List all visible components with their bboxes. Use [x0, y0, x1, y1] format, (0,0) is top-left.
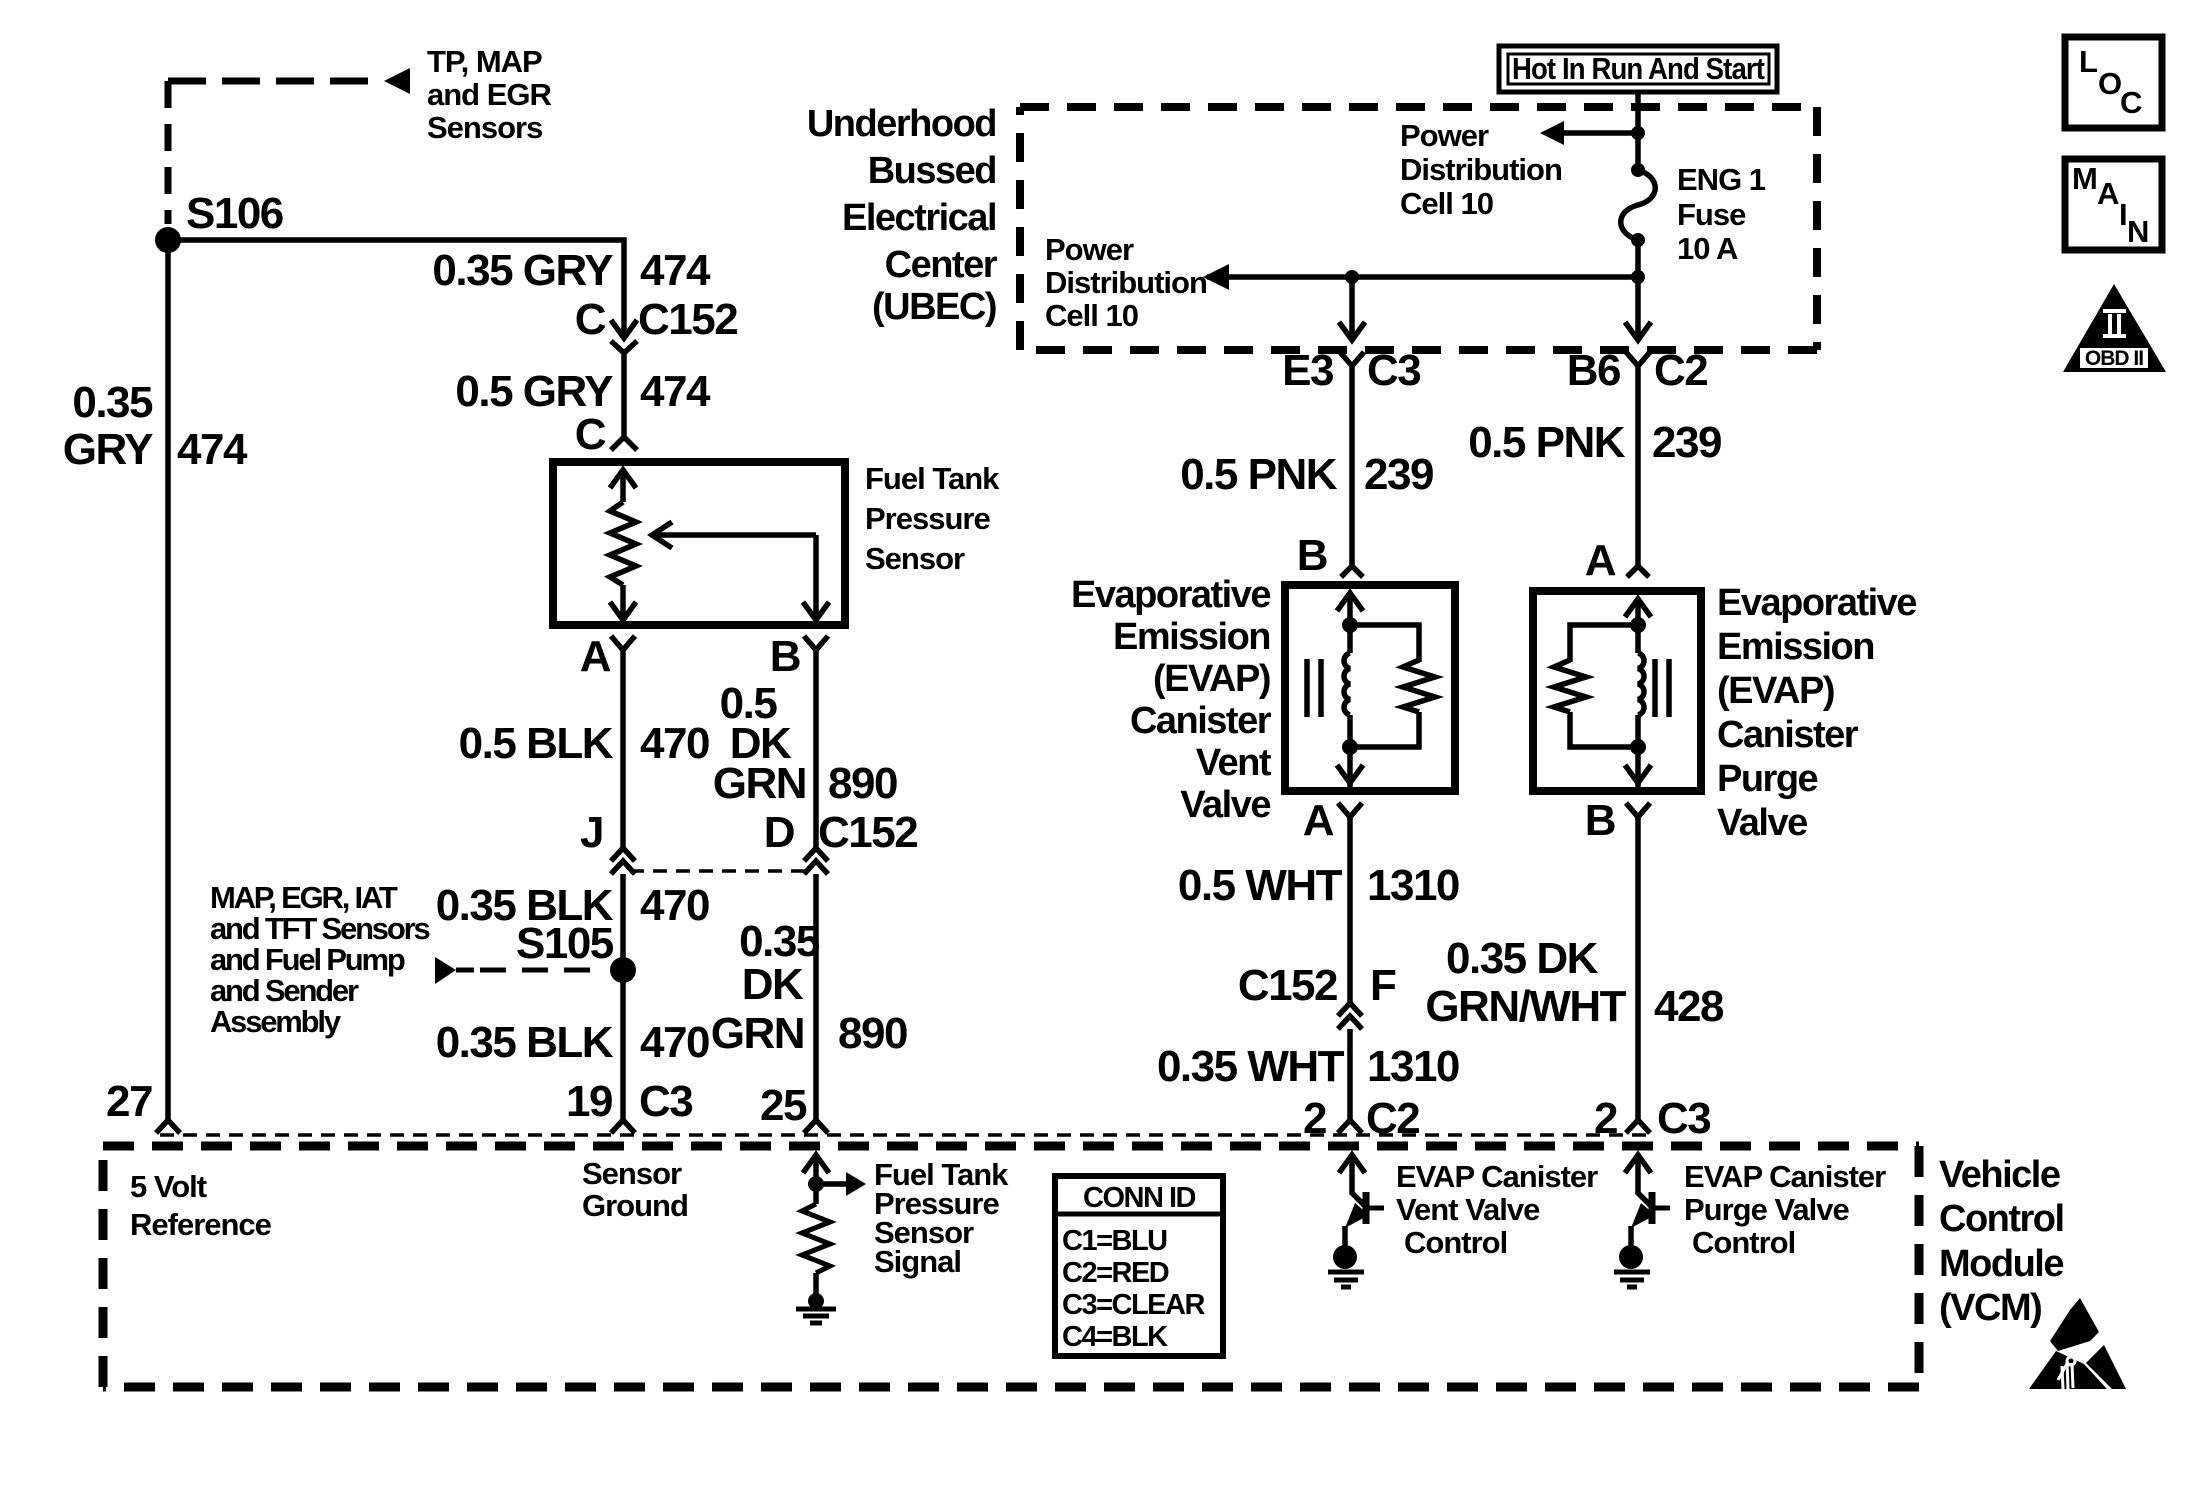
svg-text:0.35: 0.35 [72, 378, 153, 427]
svg-text:MAP, EGR, IAT: MAP, EGR, IAT [210, 880, 398, 915]
svg-text:C3: C3 [639, 1077, 692, 1126]
svg-text:Valve: Valve [1717, 802, 1807, 844]
svg-text:0.35 BLK: 0.35 BLK [436, 1018, 614, 1067]
svg-text:Distribution: Distribution [1400, 152, 1562, 187]
svg-text:B: B [770, 632, 800, 681]
svg-text:0.5 GRY: 0.5 GRY [455, 367, 613, 416]
svg-text:1310: 1310 [1367, 861, 1459, 910]
svg-text:M: M [2072, 161, 2098, 196]
svg-text:Power: Power [1400, 118, 1489, 153]
svg-text:1310: 1310 [1367, 1042, 1459, 1091]
svg-text:D: D [764, 808, 794, 857]
svg-text:Purge: Purge [1717, 758, 1818, 800]
svg-text:N: N [2127, 214, 2149, 249]
svg-text:A: A [1585, 536, 1616, 585]
svg-text:A: A [2097, 176, 2119, 211]
svg-text:Module: Module [1939, 1243, 2063, 1285]
svg-text:C1=BLU: C1=BLU [1062, 1225, 1167, 1257]
svg-text:C152: C152 [818, 808, 917, 857]
svg-text:Canister: Canister [1717, 714, 1859, 756]
svg-text:2: 2 [1303, 1094, 1326, 1143]
svg-text:TP, MAP: TP, MAP [427, 44, 542, 79]
svg-text:890: 890 [838, 1009, 907, 1058]
svg-text:F: F [1370, 961, 1396, 1010]
svg-text:Cell 10: Cell 10 [1045, 298, 1138, 333]
svg-text:470: 470 [640, 1018, 709, 1067]
svg-text:0.5 PNK: 0.5 PNK [1180, 450, 1338, 499]
svg-text:Assembly: Assembly [210, 1004, 342, 1039]
svg-text:S105: S105 [516, 919, 614, 968]
svg-text:Pressure: Pressure [865, 501, 990, 536]
svg-text:C3=CLEAR: C3=CLEAR [1062, 1289, 1205, 1321]
svg-text:890: 890 [828, 759, 897, 808]
svg-text:Sensor: Sensor [865, 541, 965, 576]
svg-text:Sensors: Sensors [427, 110, 542, 145]
svg-text:Valve: Valve [1180, 784, 1270, 826]
svg-text:Ground: Ground [582, 1188, 688, 1223]
svg-text:GRY: GRY [63, 425, 153, 474]
svg-text:(UBEC): (UBEC) [872, 286, 996, 328]
svg-text:(VCM): (VCM) [1939, 1287, 2041, 1329]
svg-text:OBD II: OBD II [2085, 347, 2143, 370]
svg-text:0.35 GRY: 0.35 GRY [432, 246, 613, 295]
svg-text:GRN: GRN [711, 1009, 804, 1058]
svg-text:Underhood: Underhood [807, 103, 996, 145]
svg-text:and TFT Sensors: and TFT Sensors [210, 911, 429, 946]
svg-text:C152: C152 [1238, 961, 1337, 1010]
svg-text:Fuse: Fuse [1677, 197, 1746, 232]
svg-text:470: 470 [640, 881, 709, 930]
svg-text:428: 428 [1654, 982, 1724, 1031]
svg-text:C2: C2 [1366, 1094, 1419, 1143]
svg-text:239: 239 [1364, 450, 1433, 499]
svg-text:19: 19 [566, 1077, 612, 1126]
svg-text:and EGR: and EGR [427, 77, 552, 112]
svg-text:Control: Control [1692, 1225, 1795, 1260]
svg-text:Sensor: Sensor [582, 1156, 682, 1191]
svg-text:Vehicle: Vehicle [1939, 1154, 2060, 1196]
svg-text:Bussed: Bussed [868, 150, 996, 192]
svg-text:470: 470 [640, 719, 709, 768]
svg-text:B: B [1585, 796, 1615, 845]
svg-text:0.5 WHT: 0.5 WHT [1178, 861, 1343, 910]
svg-text:(EVAP): (EVAP) [1153, 658, 1270, 700]
svg-text:C: C [2120, 85, 2142, 120]
svg-text:Reference: Reference [130, 1207, 272, 1242]
svg-text:B6: B6 [1567, 346, 1620, 395]
svg-text:Vent Valve: Vent Valve [1396, 1192, 1540, 1227]
svg-text:(EVAP): (EVAP) [1717, 670, 1834, 712]
svg-text:C: C [575, 410, 606, 459]
svg-text:Vent: Vent [1196, 742, 1272, 784]
svg-text:474: 474 [177, 425, 248, 474]
svg-text:L: L [2079, 44, 2098, 79]
svg-text:Emission: Emission [1717, 626, 1874, 668]
svg-text:C4=BLK: C4=BLK [1062, 1321, 1168, 1353]
svg-text:Distribution: Distribution [1045, 265, 1207, 300]
svg-text:27: 27 [106, 1077, 152, 1126]
svg-text:C: C [575, 295, 606, 344]
svg-text:Control: Control [1404, 1225, 1507, 1260]
svg-text:Power: Power [1045, 232, 1134, 267]
svg-text:ENG 1: ENG 1 [1677, 162, 1766, 197]
svg-text:Evaporative: Evaporative [1071, 574, 1270, 616]
svg-text:Control: Control [1939, 1198, 2064, 1240]
svg-text:Purge Valve: Purge Valve [1684, 1192, 1850, 1227]
svg-text:B: B [1297, 531, 1327, 580]
svg-text:C3: C3 [1657, 1094, 1710, 1143]
svg-text:A: A [1303, 796, 1334, 845]
svg-text:E3: E3 [1282, 346, 1333, 395]
svg-text:10 A: 10 A [1677, 231, 1738, 266]
svg-text:O: O [2098, 66, 2122, 101]
svg-text:Signal: Signal [874, 1244, 961, 1279]
svg-text:474: 474 [640, 246, 711, 295]
svg-text:Evaporative: Evaporative [1717, 582, 1916, 624]
svg-text:25: 25 [760, 1081, 807, 1130]
svg-text:GRN/WHT: GRN/WHT [1425, 982, 1626, 1031]
svg-text:Center: Center [885, 244, 998, 286]
svg-text:J: J [580, 808, 603, 857]
svg-text:Canister: Canister [1130, 700, 1272, 742]
svg-text:0.5 BLK: 0.5 BLK [459, 719, 614, 768]
svg-text:Cell 10: Cell 10 [1400, 186, 1493, 221]
svg-text:5 Volt: 5 Volt [130, 1169, 207, 1204]
svg-text:A: A [580, 632, 611, 681]
svg-text:C2=RED: C2=RED [1062, 1257, 1169, 1289]
svg-text:Electrical: Electrical [842, 197, 996, 239]
svg-text:C2: C2 [1654, 346, 1707, 395]
svg-text:Hot In Run And Start: Hot In Run And Start [1512, 51, 1765, 86]
svg-text:474: 474 [640, 367, 711, 416]
svg-text:Fuel Tank: Fuel Tank [865, 461, 1000, 496]
svg-text:and Fuel Pump: and Fuel Pump [210, 942, 405, 977]
svg-text:0.5 PNK: 0.5 PNK [1468, 418, 1626, 467]
svg-text:EVAP Canister: EVAP Canister [1684, 1159, 1886, 1194]
svg-text:0.35: 0.35 [739, 917, 820, 966]
svg-text:C3: C3 [1367, 346, 1420, 395]
svg-text:2: 2 [1594, 1094, 1617, 1143]
svg-text:Emission: Emission [1113, 616, 1270, 658]
svg-text:239: 239 [1652, 418, 1721, 467]
svg-text:0.35 WHT: 0.35 WHT [1157, 1042, 1345, 1091]
svg-text:GRN: GRN [713, 759, 806, 808]
svg-text:0.35 DK: 0.35 DK [1446, 934, 1599, 983]
svg-text:DK: DK [742, 960, 804, 1009]
svg-text:and Sender: and Sender [210, 973, 359, 1008]
svg-text:C152: C152 [638, 295, 737, 344]
svg-text:EVAP Canister: EVAP Canister [1396, 1159, 1598, 1194]
svg-text:CONN ID: CONN ID [1083, 1182, 1196, 1214]
svg-text:S106: S106 [186, 189, 283, 238]
